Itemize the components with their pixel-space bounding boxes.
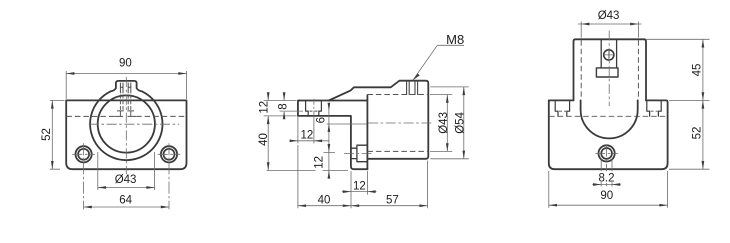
svg-text:64: 64 <box>119 195 132 207</box>
svg-text:6: 6 <box>315 117 327 123</box>
svg-text:45: 45 <box>691 64 703 77</box>
svg-text:M8: M8 <box>446 32 464 47</box>
svg-text:52: 52 <box>41 128 53 141</box>
svg-text:40: 40 <box>258 133 270 146</box>
svg-text:8: 8 <box>277 103 289 109</box>
svg-text:Ø54: Ø54 <box>454 111 466 133</box>
svg-text:12: 12 <box>353 180 366 192</box>
svg-text:12: 12 <box>301 129 314 141</box>
svg-text:Ø43: Ø43 <box>598 10 620 22</box>
svg-text:90: 90 <box>119 58 132 70</box>
svg-text:Ø43: Ø43 <box>438 112 450 134</box>
svg-text:40: 40 <box>318 195 331 207</box>
svg-text:12: 12 <box>259 101 271 114</box>
svg-text:8.2: 8.2 <box>599 172 615 184</box>
svg-text:12: 12 <box>313 156 325 169</box>
svg-text:Ø43: Ø43 <box>115 174 137 186</box>
svg-text:90: 90 <box>600 190 613 202</box>
svg-text:57: 57 <box>386 195 399 207</box>
svg-text:52: 52 <box>691 127 703 140</box>
